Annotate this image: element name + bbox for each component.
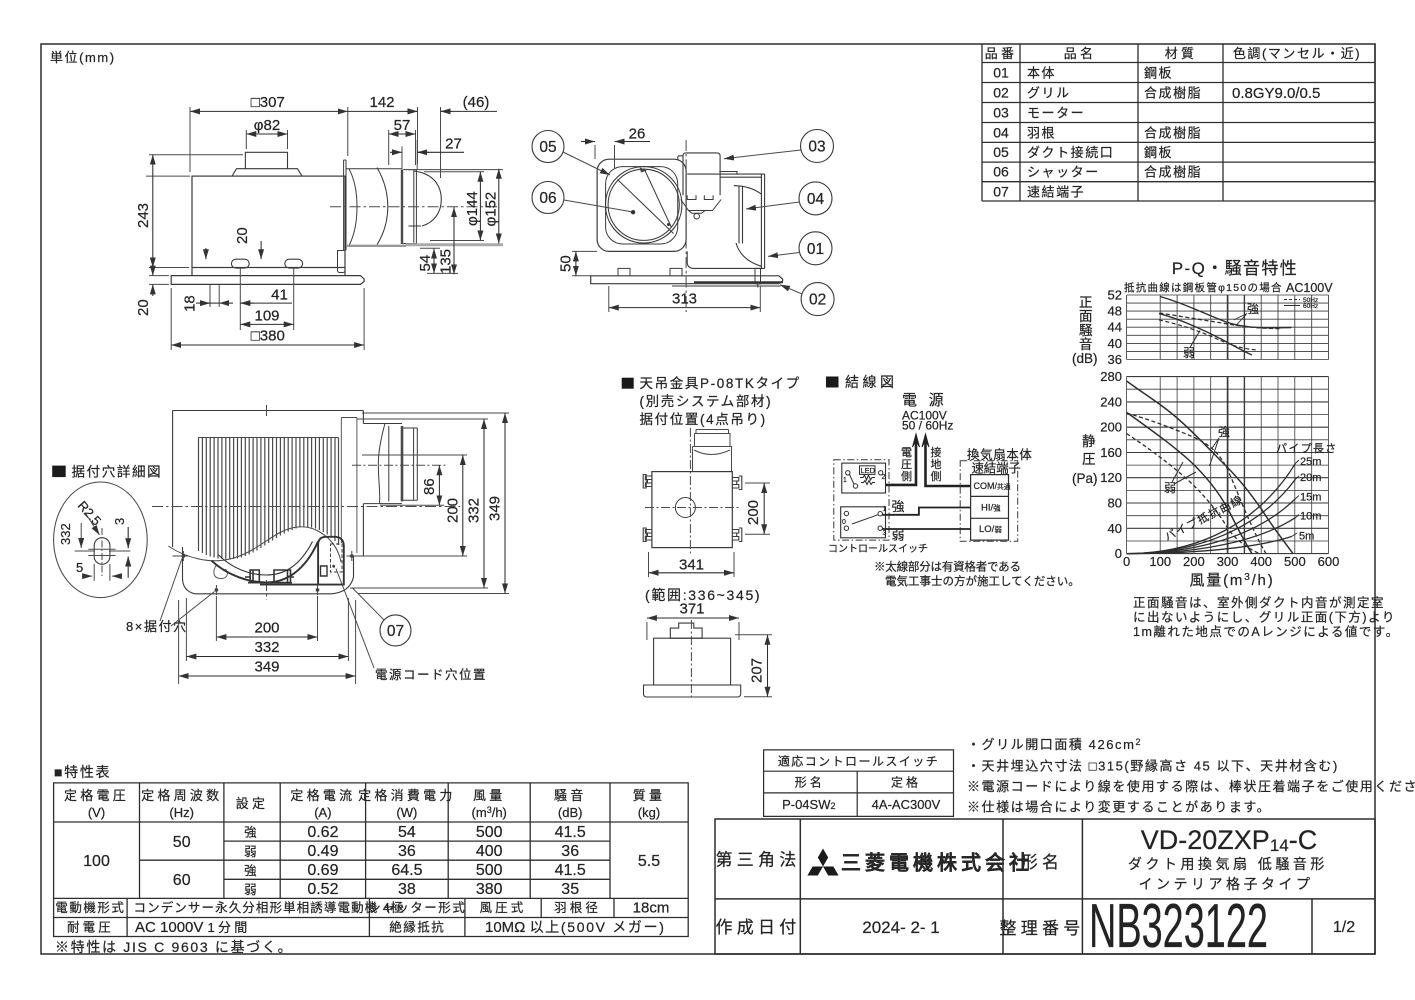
- dim 307: [190, 107, 348, 172]
- svg-text:R2.5: R2.5: [75, 498, 105, 528]
- svg-text:設定: 設定: [236, 796, 269, 811]
- svg-text:電: 電: [901, 446, 912, 459]
- svg-text:P-04SW2: P-04SW2: [782, 797, 835, 812]
- mounting plate (right of body): [344, 160, 346, 250]
- svg-text:速結端子: 速結端子: [1027, 184, 1085, 199]
- x labels: [1123, 554, 1339, 569]
- corner bracket top-left: [643, 475, 652, 489]
- svg-text:単位(mm): 単位(mm): [50, 50, 116, 65]
- svg-text:400: 400: [1250, 554, 1272, 569]
- svg-text:4A-AC300V: 4A-AC300V: [872, 797, 941, 812]
- pressure y labels: [1100, 369, 1122, 561]
- svg-text:定格周波数: 定格周波数: [141, 788, 222, 803]
- svg-text:天吊金具P-08TKタイプ: 天吊金具P-08TKタイプ: [640, 376, 801, 391]
- switch terminals upper: [846, 471, 850, 475]
- svg-text:54: 54: [398, 824, 416, 841]
- motor support leg: [338, 251, 346, 273]
- hatch top edge: [199, 437, 339, 439]
- dim 20 flange thickness: [149, 276, 169, 285]
- svg-text:(m3/h): (m3/h): [472, 805, 507, 820]
- grille hatch: [199, 438, 339, 560]
- svg-text:■特性表: ■特性表: [54, 764, 111, 780]
- svg-text:25m: 25m: [1300, 456, 1321, 468]
- dim 341: [649, 552, 735, 577]
- svg-text:合成樹脂: 合成樹脂: [1144, 86, 1202, 101]
- svg-text:(A): (A): [314, 805, 331, 820]
- fan housing right section: [687, 172, 764, 269]
- spec bottom rows: [55, 900, 669, 937]
- svg-text:41: 41: [271, 287, 288, 304]
- svg-text:0.52: 0.52: [307, 881, 338, 898]
- duct centerline: [352, 464, 447, 466]
- center hole: [675, 498, 695, 518]
- svg-text:50 / 60Hz: 50 / 60Hz: [902, 419, 953, 433]
- spec table grid: [54, 783, 689, 937]
- svg-text:0: 0: [1123, 554, 1130, 569]
- Mitsubishi three-diamond logo: [807, 849, 838, 876]
- mounting hole dots: [182, 554, 354, 592]
- bracket top view square: [652, 472, 732, 548]
- svg-text:形名: 形名: [1021, 853, 1064, 872]
- svg-text:コンデンサー永久分相形単相誘導電動機 4極: コンデンサー永久分相形単相誘導電動機 4極: [134, 900, 405, 915]
- svg-text:HI/強: HI/強: [981, 503, 1001, 514]
- spec data: [83, 824, 660, 898]
- svg-text:120: 120: [1100, 470, 1122, 485]
- svg-text:ダクト接続口: ダクト接続口: [1027, 145, 1114, 160]
- top duct stub: [245, 152, 287, 168]
- svg-text:135: 135: [438, 249, 455, 274]
- svg-text:0.62: 0.62: [307, 824, 338, 841]
- centerline vertical: [689, 428, 691, 554]
- svg-text:50: 50: [558, 255, 575, 272]
- svg-text:1: 1: [883, 506, 887, 513]
- bottom ext lines: [171, 268, 364, 350]
- svg-text:LED: LED: [861, 466, 876, 475]
- svg-text:200: 200: [745, 500, 762, 525]
- dim 200 bottom: [216, 596, 317, 641]
- terminal block: [971, 475, 1009, 540]
- fan scroll arcs revealed (section, bold): [212, 541, 319, 582]
- body centerline horizontal: [152, 506, 460, 508]
- svg-text:強: 強: [1218, 425, 1233, 439]
- svg-text:強: 強: [244, 826, 260, 840]
- callout 05: [532, 131, 564, 163]
- flange straight edges: [173, 555, 362, 557]
- svg-text:41.5: 41.5: [555, 862, 586, 879]
- svg-text:弱: 弱: [892, 528, 908, 543]
- dim 380: [171, 344, 364, 346]
- svg-text:音: 音: [1079, 336, 1093, 352]
- shutter pivot mark: [640, 167, 648, 172]
- dim 313: [609, 286, 761, 312]
- svg-text:400: 400: [476, 843, 503, 860]
- svg-text:52: 52: [1108, 288, 1122, 303]
- svg-text:109: 109: [254, 307, 279, 324]
- svg-text:シャッター形式: シャッター形式: [368, 901, 466, 915]
- svg-text:200: 200: [1183, 554, 1205, 569]
- svg-text:200: 200: [1100, 420, 1122, 435]
- bracket title: [622, 378, 634, 389]
- svg-text:弱: 弱: [1164, 481, 1179, 495]
- ceiling flange: [171, 276, 364, 285]
- svg-text:ダクト用換気扇 低騒音形: ダクト用換気扇 低騒音形: [1128, 856, 1328, 872]
- svg-text:コントロールスイッチ: コントロールスイッチ: [828, 543, 928, 555]
- title block grid: [715, 819, 1375, 954]
- svg-text:5: 5: [76, 560, 83, 575]
- svg-text:グリル: グリル: [1027, 86, 1071, 101]
- selector terminals: [844, 511, 848, 515]
- weak wire: [883, 528, 971, 530]
- fan curve strong 60Hz: [1127, 381, 1293, 554]
- shutter center dot: [631, 210, 635, 214]
- svg-text:インテリア格子タイプ: インテリア格子タイプ: [1139, 876, 1314, 892]
- svg-text:02: 02: [993, 85, 1009, 101]
- oval mounting holes: [231, 259, 249, 268]
- svg-text:0: 0: [1115, 546, 1122, 561]
- svg-text:(Hz): (Hz): [169, 805, 194, 820]
- svg-text:500: 500: [476, 824, 503, 841]
- svg-text:313: 313: [672, 290, 697, 307]
- svg-text:240: 240: [1100, 394, 1122, 409]
- hole tick marks: [178, 551, 358, 595]
- pipe curve 15m: [1127, 499, 1296, 554]
- svg-text:羽根径: 羽根径: [554, 901, 601, 915]
- svg-text:18cm: 18cm: [633, 900, 670, 917]
- svg-text:電 源: 電 源: [902, 392, 947, 409]
- svg-text:06: 06: [993, 164, 1009, 180]
- motor mount bracket: [681, 195, 721, 219]
- svg-text:AC100V: AC100V: [1286, 281, 1333, 295]
- duct rings: [403, 170, 416, 244]
- svg-text:05: 05: [539, 139, 556, 156]
- svg-text:・グリル開口面積 426cm2: ・グリル開口面積 426cm2: [967, 737, 1142, 752]
- pipe curve 20m: [1127, 479, 1296, 553]
- svg-text:三菱電機株式会社: 三菱電機株式会社: [841, 851, 1033, 875]
- hole centerlines: [101, 528, 103, 578]
- dim 50: [572, 251, 597, 275]
- svg-text:15m: 15m: [1300, 492, 1321, 504]
- duct rings (bottom view): [363, 424, 417, 504]
- svg-text:380: 380: [476, 881, 503, 898]
- rear centerline: [685, 140, 687, 312]
- svg-text:10m: 10m: [1300, 511, 1321, 523]
- svg-text:※太線部分は有資格者である: ※太線部分は有資格者である: [874, 560, 1021, 574]
- svg-text:VD-20ZXP14-C: VD-20ZXP14-C: [1141, 825, 1317, 855]
- svg-text:5m: 5m: [1299, 531, 1314, 543]
- pressure graph grid: [1127, 377, 1329, 554]
- svg-text:絶縁抵抗: 絶縁抵抗: [389, 920, 445, 935]
- svg-text:5.5: 5.5: [638, 853, 660, 870]
- svg-text:20: 20: [135, 299, 152, 316]
- noise curves strong: [1160, 297, 1292, 328]
- svg-text:80: 80: [1108, 496, 1122, 511]
- svg-text:電源コード穴位置: 電源コード穴位置: [375, 667, 487, 682]
- svg-text:速結端子: 速結端子: [972, 462, 1021, 476]
- terminal outer dashed box: [960, 461, 1018, 542]
- svg-text:適応コントロールスイッチ: 適応コントロールスイッチ: [778, 753, 939, 768]
- hole oval: [94, 538, 110, 565]
- svg-text:定格: 定格: [891, 774, 921, 789]
- svg-text:1/2: 1/2: [1333, 919, 1355, 936]
- svg-text:60: 60: [173, 872, 191, 889]
- svg-text:正: 正: [1079, 295, 1093, 310]
- svg-text:1: 1: [843, 477, 847, 484]
- svg-text:羽根: 羽根: [1027, 125, 1056, 140]
- shutter dome: [408, 171, 441, 226]
- duct opening circle: [606, 167, 682, 243]
- callout 07: [380, 615, 411, 646]
- fan curve weak 50Hz dashed: [1127, 434, 1259, 554]
- flange tabs: [618, 268, 682, 275]
- svg-text:面: 面: [1079, 309, 1093, 324]
- switch lower unit box: [841, 507, 886, 538]
- noise curves weak: [1159, 314, 1252, 355]
- svg-text:に出ないようにし、グリル正面(下方)より: に出ないようにし、グリル正面(下方)より: [1133, 610, 1396, 625]
- svg-text:鋼板: 鋼板: [1144, 66, 1173, 81]
- parts table grid: [982, 44, 1375, 201]
- pipe curve 10m: [1127, 518, 1296, 554]
- fan body: [192, 176, 345, 267]
- svg-text:第三角法: 第三角法: [716, 851, 801, 870]
- svg-text:(Pa): (Pa): [1072, 471, 1098, 486]
- motor box: [678, 153, 720, 195]
- svg-text:57: 57: [394, 117, 411, 134]
- svg-text:合成樹脂: 合成樹脂: [1144, 125, 1202, 140]
- dim 207: [735, 635, 772, 697]
- motor mount feet (bold): [245, 570, 294, 583]
- noise y labels: [1108, 288, 1122, 368]
- svg-text:36: 36: [1108, 352, 1122, 367]
- svg-text:定格電流: 定格電流: [290, 788, 355, 803]
- centerline: [330, 206, 500, 208]
- svg-text:26: 26: [629, 126, 646, 143]
- svg-text:接: 接: [931, 446, 942, 459]
- dim 200 (bracket): [745, 483, 770, 534]
- power wire L (thick, with up arrow): [886, 440, 917, 485]
- svg-text:349: 349: [487, 496, 504, 521]
- svg-text:03: 03: [993, 105, 1009, 121]
- svg-text:(46): (46): [463, 94, 490, 111]
- shutter blade lines: [618, 169, 674, 234]
- svg-text:品番: 品番: [985, 46, 1018, 61]
- svg-text:04: 04: [807, 191, 825, 208]
- svg-text:600: 600: [1318, 554, 1340, 569]
- svg-text:モーター: モーター: [1027, 106, 1085, 121]
- pressure axis title: [1072, 434, 1098, 486]
- svg-text:04: 04: [993, 124, 1009, 140]
- svg-text:※特性は JIS C 9603 に基づく。: ※特性は JIS C 9603 に基づく。: [55, 939, 293, 955]
- callout 06: [532, 182, 564, 214]
- svg-text:正面騒音は、室外側ダクト内音が測定室: 正面騒音は、室外側ダクト内音が測定室: [1133, 595, 1385, 610]
- svg-text:200: 200: [444, 498, 461, 523]
- svg-text:341: 341: [679, 557, 704, 574]
- svg-text:側: 側: [901, 470, 912, 483]
- dim 142: [348, 110, 418, 112]
- svg-text:作成日付: 作成日付: [716, 918, 801, 937]
- svg-text:形名: 形名: [795, 774, 825, 789]
- svg-text:332: 332: [58, 523, 73, 545]
- svg-text:□307: □307: [251, 94, 285, 111]
- svg-text:05: 05: [993, 144, 1009, 160]
- svg-text:207: 207: [749, 658, 766, 683]
- dim phi82: [246, 130, 287, 149]
- svg-text:電動機形式: 電動機形式: [55, 900, 125, 915]
- svg-text:100: 100: [83, 853, 110, 870]
- svg-text:38: 38: [398, 881, 416, 898]
- svg-text:騒: 騒: [1079, 323, 1093, 338]
- svg-text:地: 地: [931, 458, 942, 471]
- svg-text:※電源コードにより線を使用する際は、棒状圧着端子をご使用くだ: ※電源コードにより線を使用する際は、棒状圧着端子をご使用ください。: [967, 779, 1415, 794]
- svg-text:0.69: 0.69: [307, 862, 338, 879]
- control switch table grid: [764, 750, 954, 817]
- dim 86 right: [380, 504, 444, 506]
- body outline: [173, 411, 364, 557]
- svg-text:50: 50: [173, 834, 191, 851]
- svg-text:2: 2: [882, 474, 886, 481]
- svg-text:□380: □380: [251, 328, 285, 345]
- svg-text:風量(m3/h): 風量(m3/h): [1190, 572, 1275, 589]
- dim 57: [389, 130, 416, 165]
- svg-text:160: 160: [1100, 445, 1122, 460]
- svg-text:10MΩ 以上(500V メガー): 10MΩ 以上(500V メガー): [485, 919, 666, 936]
- control switch dashed box: [834, 460, 889, 540]
- svg-text:48: 48: [1108, 304, 1122, 319]
- duct adapter thick ring (bottom view): [401, 426, 404, 501]
- svg-text:332: 332: [466, 498, 483, 523]
- duct silhouette above square: [693, 430, 732, 472]
- rear flange: [591, 276, 783, 284]
- side body: [654, 638, 731, 685]
- svg-text:200: 200: [254, 620, 279, 637]
- terminal box (07, bold): [260, 537, 344, 585]
- corner bracket top-right: [732, 476, 742, 490]
- callout 02: [801, 283, 834, 316]
- svg-text:332: 332: [254, 639, 279, 656]
- spec headers: [64, 788, 665, 820]
- svg-text:鋼板: 鋼板: [1144, 145, 1173, 160]
- svg-text:0.8GY9.0/0.5: 0.8GY9.0/0.5: [1232, 85, 1320, 102]
- svg-text:耐電圧: 耐電圧: [67, 921, 114, 935]
- grille edge under flange: [672, 268, 781, 287]
- outer rounded square (duct adapter): [597, 159, 686, 251]
- dims 54 135: [420, 248, 458, 273]
- wiring title: [826, 377, 839, 388]
- svg-text:01: 01: [993, 65, 1009, 81]
- svg-text:142: 142: [369, 94, 394, 111]
- svg-text:36: 36: [398, 843, 416, 860]
- svg-text:02: 02: [809, 292, 826, 309]
- svg-text:18: 18: [182, 295, 199, 312]
- svg-text:圧: 圧: [901, 459, 912, 471]
- svg-text:質量: 質量: [633, 788, 666, 803]
- svg-text:20: 20: [234, 227, 251, 244]
- svg-text:06: 06: [539, 190, 556, 207]
- svg-text:電気工事士の方が施工してください。: 電気工事士の方が施工してください。: [885, 574, 1080, 588]
- svg-text:材質: 材質: [1165, 46, 1198, 61]
- svg-text:(W): (W): [396, 805, 417, 820]
- svg-text:500: 500: [476, 862, 503, 879]
- centerline horizontal: [645, 507, 740, 509]
- svg-text:φ152: φ152: [483, 192, 500, 227]
- detail title: [52, 466, 65, 478]
- dim 18: [196, 302, 210, 304]
- svg-text:(dB): (dB): [1072, 351, 1098, 366]
- assembly bottom shading: [346, 245, 406, 247]
- ground side label 接地側: [931, 446, 942, 483]
- side centerline: [690, 620, 692, 700]
- svg-text:パイプ長さ: パイプ長さ: [1276, 442, 1338, 455]
- svg-text:騒音: 騒音: [554, 788, 587, 803]
- svg-text:品名: 品名: [1064, 46, 1097, 61]
- voltage side label 電圧側: [901, 446, 912, 483]
- svg-text:弱: 弱: [244, 883, 260, 897]
- inner body lines: [341, 418, 357, 554]
- svg-text:07: 07: [993, 183, 1009, 199]
- svg-text:本体: 本体: [1027, 66, 1056, 81]
- svg-text:64.5: 64.5: [391, 862, 422, 879]
- flange lower layer: [183, 547, 354, 594]
- svg-text:54: 54: [417, 255, 434, 272]
- LED box: [860, 466, 876, 475]
- svg-text:0: 0: [842, 519, 846, 526]
- detail bubble circle: [54, 482, 148, 598]
- svg-text:弱: 弱: [1183, 346, 1198, 360]
- svg-text:据付位置(4点吊り): 据付位置(4点吊り): [640, 412, 767, 427]
- svg-text:500: 500: [1284, 554, 1306, 569]
- noise axis title: [1072, 295, 1098, 366]
- svg-text:COM/共通: COM/共通: [974, 481, 1011, 491]
- fan curve weak 60Hz: [1127, 412, 1252, 553]
- dim 200 right: [357, 455, 467, 556]
- svg-text:(dB): (dB): [558, 805, 583, 820]
- svg-text:40: 40: [1108, 521, 1122, 536]
- svg-text:φ82: φ82: [254, 117, 280, 134]
- svg-text:側: 側: [931, 470, 942, 483]
- pipe curve 25m: [1127, 463, 1296, 553]
- svg-text:・天井埋込穴寸法 □315(野縁高さ 45 以下、天井材含: ・天井埋込穴寸法 □315(野縁高さ 45 以下、天井材含む): [967, 759, 1339, 774]
- svg-text:定格電圧: 定格電圧: [64, 788, 129, 803]
- callout 03: [801, 130, 834, 163]
- svg-text:合成樹脂: 合成樹脂: [1144, 165, 1202, 180]
- svg-text:0.49: 0.49: [307, 843, 338, 860]
- switch upper unit box: [842, 463, 886, 493]
- svg-text:風量: 風量: [473, 788, 506, 803]
- svg-text:07: 07: [387, 623, 404, 640]
- side duct stub: [670, 623, 702, 638]
- svg-text:シャッター: シャッター: [1027, 165, 1100, 180]
- svg-text:349: 349: [254, 659, 279, 676]
- svg-text:40: 40: [1108, 336, 1122, 351]
- svg-text:(別売システム部材): (別売システム部材): [640, 394, 773, 409]
- svg-text:強: 強: [244, 864, 260, 878]
- body skirt to flange: [192, 268, 345, 276]
- dim 27: [402, 140, 417, 172]
- corner bracket bottom-right: [732, 528, 742, 542]
- svg-text:1m離れた地点でのAレンジによる値です。: 1m離れた地点でのAレンジによる値です。: [1133, 624, 1400, 639]
- svg-text:据付穴詳細図: 据付穴詳細図: [72, 465, 163, 480]
- dim 26: [595, 145, 615, 168]
- pipe curve 5m: [1127, 537, 1292, 554]
- dim 349 right: [358, 413, 509, 594]
- svg-text:243: 243: [135, 203, 152, 228]
- duct adapter thick ring: [401, 170, 403, 244]
- svg-text:換気扇本体: 換気扇本体: [967, 447, 1033, 462]
- svg-text:色調(マンセル・近): 色調(マンセル・近): [1233, 46, 1361, 61]
- dims phi144 phi152: [408, 170, 503, 241]
- svg-text:3: 3: [883, 530, 887, 537]
- svg-text:抵抗曲線は鋼板管φ150の場合: 抵抗曲線は鋼板管φ150の場合: [1124, 281, 1283, 294]
- dim 332 bottom: [186, 598, 348, 661]
